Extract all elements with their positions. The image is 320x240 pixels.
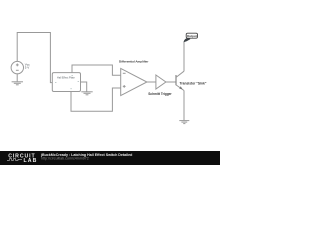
hall effect plate box X1 (52, 73, 80, 92)
emitter arrow (179, 86, 182, 89)
svg-text:Output: Output (187, 34, 197, 38)
svg-text:LAB: LAB (24, 158, 38, 164)
op-amp differential amplifier (121, 68, 147, 95)
svg-text:5 V: 5 V (25, 66, 30, 70)
voltage source V1 (11, 61, 23, 73)
svg-text:Schmitt Trigger: Schmitt Trigger (148, 92, 172, 96)
logo waveform (7, 159, 22, 161)
ground GND1 under V1 (12, 82, 23, 85)
wire box top to opamp minus input (72, 65, 121, 75)
svg-text:http://circuitlab.com/c4mm972: http://circuitlab.com/c4mm972 (41, 157, 89, 161)
wire schmitt output to transistor base (166, 81, 176, 83)
wire opamp output to schmitt input (147, 81, 156, 83)
wire collector up to output node (183, 42, 185, 71)
svg-text:Differential Amplifier: Differential Amplifier (119, 59, 149, 63)
svg-text:Hall Effect Plate: Hall Effect Plate (57, 76, 75, 79)
wire box right to ground stub (81, 82, 87, 92)
ground GND3 under emitter (179, 121, 189, 124)
wire V1 bottom to ground (16, 74, 18, 82)
ground GND2 right of box (81, 92, 92, 95)
footer bar (0, 151, 220, 165)
wire V1 top to rail (17, 33, 52, 83)
transistor Q1 npn (175, 75, 177, 85)
schmitt trigger buffer (156, 75, 166, 89)
wire box bottom to opamp plus input (71, 88, 121, 111)
pin marks (55, 75, 79, 88)
node flag Output (184, 33, 198, 42)
wire emitter down to ground (183, 91, 185, 121)
CircuitLab logo (8, 154, 37, 164)
svg-text:Transistor "Sink": Transistor "Sink" (180, 81, 207, 85)
V1 value label Vcc 5 V (25, 62, 31, 69)
